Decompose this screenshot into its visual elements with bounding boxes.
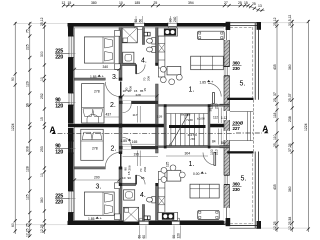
- door bedroom upper with arc: [105, 82, 121, 97]
- section line A-A right: [236, 124, 269, 134]
- stair annotation upper: [157, 112, 205, 121]
- shower bath upper: [122, 28, 137, 43]
- svg-text:2.: 2.: [110, 102, 116, 109]
- svg-text:1.85: 1.85: [90, 75, 97, 79]
- bed bedroom3 upper: [84, 37, 114, 63]
- room labels: [96, 58, 247, 200]
- svg-text:253: 253: [40, 146, 44, 152]
- svg-text:340: 340: [103, 65, 109, 69]
- svg-text:129: 129: [26, 81, 30, 87]
- level mark bedroom lower: [88, 216, 103, 222]
- bidet bath upper: [147, 46, 156, 52]
- interior dimension 340 upper: [73, 65, 121, 71]
- top dimension chain: [62, 1, 265, 12]
- svg-text:360: 360: [233, 61, 241, 66]
- svg-text:15: 15: [127, 171, 131, 175]
- svg-text:60: 60: [139, 19, 143, 23]
- svg-text:206: 206: [128, 86, 132, 91]
- interior dimension 304 lower: [166, 152, 208, 156]
- shower bath lower: [124, 207, 139, 222]
- svg-text:220: 220: [55, 200, 63, 206]
- svg-text:220: 220: [55, 55, 63, 61]
- svg-text:118: 118: [273, 112, 277, 118]
- svg-text:4.: 4.: [141, 58, 147, 65]
- hall dims lower: [121, 139, 140, 157]
- corridor door labels upper: [125, 76, 151, 118]
- window W1 bottom wall: [139, 221, 149, 225]
- section line A-A left: [50, 125, 237, 135]
- boiler BO lower: [144, 216, 151, 220]
- svg-text:1.85: 1.85: [121, 139, 128, 143]
- svg-text:84: 84: [212, 139, 216, 143]
- svg-text:60: 60: [11, 223, 15, 227]
- svg-text:84: 84: [221, 141, 225, 145]
- entry door upper with arc: [208, 83, 230, 106]
- svg-text:85: 85: [141, 176, 145, 180]
- svg-text:1.12: 1.12: [221, 116, 227, 120]
- svg-text:37,25: 37,25: [288, 143, 292, 152]
- wall top exterior: [68, 23, 230, 28]
- window left wall bedroom3 (225/220): [68, 36, 74, 58]
- right wall opening: terrace door lower: [224, 208, 231, 226]
- door label 100/210 upper rotated: [210, 103, 219, 109]
- bed bedroom2 upper: [82, 84, 104, 123]
- right wall window upper (living): [224, 67, 230, 76]
- corridor door labels lower: [122, 165, 147, 180]
- svg-text:230Ø: 230Ø: [233, 121, 244, 126]
- wall junction nodes: [119, 63, 211, 186]
- window dim pair below bottom wall W2: [172, 225, 181, 238]
- partition bedroom3/bedroom2 lower: [74, 167, 105, 169]
- porch dims: [209, 108, 228, 145]
- kitchen counter top upper: [158, 28, 178, 36]
- window W1 top wall (bath): [134, 23, 145, 27]
- svg-text:3.: 3.: [96, 184, 102, 191]
- svg-text:90: 90: [209, 108, 213, 112]
- svg-text:12: 12: [62, 1, 66, 5]
- svg-text:139: 139: [157, 115, 162, 119]
- wall right exterior hatched: [224, 26, 230, 225]
- kitchen counter bottom lower: [158, 212, 178, 220]
- svg-text:360: 360: [288, 64, 292, 70]
- svg-text:435: 435: [273, 184, 277, 190]
- svg-text:125: 125: [26, 194, 30, 200]
- window dim pair below bottom wall W1: [138, 225, 147, 238]
- svg-text:2.: 2.: [111, 146, 117, 153]
- svg-text:225: 225: [26, 44, 30, 50]
- svg-text:10: 10: [40, 77, 44, 81]
- window label 360/230 upper terrace: [232, 61, 242, 72]
- svg-text:/30: /30: [191, 137, 196, 141]
- svg-text:125: 125: [166, 161, 170, 167]
- terrace lower dashed roofline: [230, 154, 253, 224]
- window label 90/120 lower: [55, 144, 76, 156]
- door bath upper with arc: [135, 64, 145, 74]
- door bath lower with arc: [135, 175, 145, 185]
- svg-text:25,12: 25,12: [40, 17, 44, 26]
- svg-text:75: 75: [26, 223, 30, 227]
- bath top wall lower: [119, 183, 136, 185]
- svg-text:1.85: 1.85: [200, 80, 207, 84]
- svg-text:25: 25: [154, 1, 158, 5]
- extension lines to dimension chains: [15, 23, 308, 228]
- boiler BO upper: [144, 32, 151, 36]
- svg-text:278: 278: [92, 147, 98, 151]
- stair direction arrow: [169, 113, 188, 146]
- svg-text:27: 27: [224, 1, 228, 5]
- svg-text:437: 437: [106, 113, 112, 117]
- right wall opening: terrace door upper: [224, 22, 231, 40]
- svg-text:15: 15: [244, 1, 248, 5]
- vestibule closet lines: [138, 106, 141, 166]
- sofa living upper: [191, 56, 224, 69]
- door label 100/210 lower rotated: [210, 149, 219, 155]
- svg-text:25: 25: [273, 143, 277, 147]
- svg-text:210: 210: [215, 103, 219, 109]
- level mark living lower: [193, 170, 208, 176]
- svg-text:228: 228: [136, 93, 141, 97]
- svg-text:12,25: 12,25: [40, 224, 44, 233]
- svg-text:206: 206: [146, 76, 150, 81]
- svg-text:165: 165: [132, 140, 138, 144]
- window left wall bedroom2 (90/120): [68, 93, 74, 105]
- svg-text:3.: 3.: [112, 74, 118, 81]
- svg-text:0.00: 0.00: [193, 172, 200, 176]
- stairhall walls: [158, 105, 230, 148]
- svg-text:300: 300: [40, 51, 44, 57]
- porch label 230/227: [232, 121, 244, 132]
- party wall between units: [68, 124, 230, 128]
- washbasin counter upper: [123, 52, 134, 63]
- stair treads upper flight: [166, 114, 208, 126]
- svg-text:15: 15: [68, 1, 72, 5]
- svg-text:360: 360: [288, 186, 292, 192]
- right dimension chain inner: [273, 17, 279, 232]
- stair annotation lower: [188, 133, 198, 141]
- svg-text:96: 96: [26, 103, 30, 107]
- window dim pair above top wall W1: [134, 16, 143, 23]
- svg-text:304: 304: [185, 152, 191, 156]
- svg-text:90: 90: [128, 176, 132, 180]
- svg-text:230: 230: [233, 187, 241, 192]
- svg-text:120: 120: [55, 104, 63, 110]
- nightstand bedroom3 lower top: [115, 183, 121, 189]
- window W2 bottom wall: [172, 221, 181, 225]
- svg-text:7x30: 7x30: [186, 118, 193, 122]
- terrace upper walls: [227, 22, 261, 100]
- svg-text:185: 185: [135, 1, 141, 5]
- partition bedroom3/bedroom2 upper: [74, 78, 105, 80]
- vestibule wall upper: [119, 101, 158, 113]
- partition bedrooms/bath vertical lower: [119, 128, 122, 221]
- interior dimension 437 upper: [104, 113, 119, 117]
- kitchen counter left strip upper: [158, 36, 165, 77]
- svg-text:210: 210: [215, 149, 219, 155]
- window left wall bedroom3 lower (225/220): [68, 191, 74, 213]
- terrace lower walls: [227, 151, 261, 229]
- svg-text:120: 120: [177, 233, 181, 239]
- svg-text:117: 117: [133, 113, 138, 117]
- svg-text:240: 240: [173, 16, 177, 22]
- svg-text:195: 195: [134, 152, 140, 156]
- svg-text:1.: 1.: [189, 161, 195, 168]
- svg-text:394: 394: [188, 1, 194, 5]
- svg-text:25: 25: [273, 98, 277, 102]
- svg-text:5.: 5.: [240, 81, 246, 88]
- svg-text:60: 60: [142, 235, 146, 239]
- porch edges: [230, 100, 254, 151]
- wall bottom exterior: [68, 220, 230, 225]
- svg-text:206: 206: [143, 167, 147, 172]
- svg-text:10: 10: [119, 1, 123, 5]
- svg-text:25: 25: [252, 2, 256, 6]
- right dimension chain outer: [304, 20, 310, 232]
- dining table lower: [161, 165, 185, 183]
- svg-text:360: 360: [233, 182, 241, 187]
- stair treads lower flight: [166, 128, 208, 146]
- svg-text:15: 15: [40, 117, 44, 121]
- svg-text:252: 252: [40, 93, 44, 99]
- entry door lower with arc: [203, 145, 230, 165]
- dining table upper: [160, 66, 182, 84]
- vestibule wall lower: [119, 137, 158, 149]
- interior dimension 200 lower: [73, 176, 121, 182]
- partition bedrooms/bath vertical upper: [119, 28, 122, 124]
- terrace upper dashed roofline: [230, 27, 253, 98]
- window sill boards: [135, 27, 180, 221]
- svg-text:112: 112: [213, 115, 218, 119]
- nightstand bedroom3 lower bottom: [115, 214, 121, 220]
- svg-text:13: 13: [258, 4, 262, 8]
- kitchen counter left strip lower: [158, 172, 165, 213]
- svg-text:380: 380: [91, 1, 97, 5]
- window W2 top wall (kitchen): [168, 23, 177, 27]
- svg-text:12,25: 12,25: [26, 228, 30, 237]
- left dimension chain outer: [11, 22, 17, 234]
- bed bedroom2 lower: [81, 129, 103, 160]
- left dimension chain middle: [26, 22, 32, 238]
- wall left exterior: [68, 23, 74, 225]
- right wall window lower (living): [224, 175, 230, 184]
- svg-text:25: 25: [238, 1, 242, 5]
- left dimension chain inner: [40, 17, 46, 234]
- svg-text:120: 120: [55, 150, 63, 156]
- svg-text:±0,00: ±0,00: [197, 117, 205, 121]
- window left wall bedroom2 lower (90/120): [68, 141, 74, 153]
- svg-text:278: 278: [94, 89, 100, 93]
- bed bedroom3 lower: [84, 192, 114, 215]
- door bedroom lower with arc: [105, 152, 121, 167]
- svg-text:30,5,12: 30,5,12: [288, 15, 292, 26]
- svg-text:227: 227: [233, 126, 241, 131]
- sideboard living upper: [198, 31, 225, 39]
- level mark bedroom upper: [90, 74, 105, 80]
- svg-text:435: 435: [273, 64, 277, 70]
- svg-text:37: 37: [273, 92, 277, 96]
- right wall porch doors: [224, 111, 230, 140]
- toilet bath lower: [147, 197, 156, 203]
- svg-text:1.: 1.: [189, 87, 195, 94]
- washbasin counter lower: [124, 190, 135, 200]
- bath inner divider upper: [142, 28, 144, 45]
- window label 90/120 upper: [55, 98, 76, 110]
- partition bath/kitchen vertical upper: [156, 28, 159, 125]
- svg-text:1.85: 1.85: [88, 217, 95, 221]
- svg-text:110: 110: [273, 134, 277, 140]
- svg-text:15: 15: [143, 88, 147, 92]
- right dimension chain middle: [288, 15, 294, 232]
- level mark living upper: [200, 79, 215, 85]
- svg-text:5.: 5.: [241, 176, 247, 183]
- svg-text:128: 128: [26, 166, 30, 172]
- svg-text:238: 238: [288, 116, 292, 122]
- svg-text:100: 100: [210, 149, 214, 155]
- svg-text:10: 10: [40, 173, 44, 177]
- bath bottom wall upper: [119, 63, 136, 65]
- svg-text:200: 200: [94, 176, 100, 180]
- window label 360/230 lower terrace: [232, 182, 242, 193]
- svg-text:230: 230: [233, 66, 241, 71]
- svg-text:75: 75: [26, 29, 30, 33]
- svg-text:25,37: 25,37: [288, 93, 292, 102]
- window dim pair above top wall W2: [169, 16, 178, 23]
- svg-text:25,12: 25,12: [273, 17, 277, 26]
- svg-text:10: 10: [122, 176, 126, 180]
- nightstand bedroom3 upper bottom: [115, 64, 121, 70]
- window label 225/220 upper: [55, 49, 76, 61]
- window label 225/220 lower: [55, 194, 76, 206]
- bath inner divider lower: [142, 205, 144, 221]
- svg-text:1224: 1224: [304, 123, 308, 131]
- svg-text:4.: 4.: [140, 192, 146, 199]
- svg-text:12,25: 12,25: [273, 221, 277, 230]
- svg-text:90: 90: [11, 77, 15, 81]
- svg-text:308: 308: [26, 146, 30, 152]
- svg-text:360: 360: [40, 197, 44, 203]
- sofa living lower: [190, 184, 219, 198]
- svg-text:12,25,38: 12,25,38: [288, 217, 292, 230]
- svg-text:1224: 1224: [11, 123, 15, 131]
- toilet bath upper: [147, 38, 156, 44]
- nightstand bedroom3 upper top: [115, 30, 121, 36]
- svg-text:8x17,8: 8x17,8: [181, 112, 191, 116]
- corridor dim upper: [121, 89, 159, 98]
- svg-text:206: 206: [127, 165, 131, 170]
- sideboard living lower: [198, 210, 220, 219]
- partition bath/kitchen vertical lower: [156, 128, 159, 221]
